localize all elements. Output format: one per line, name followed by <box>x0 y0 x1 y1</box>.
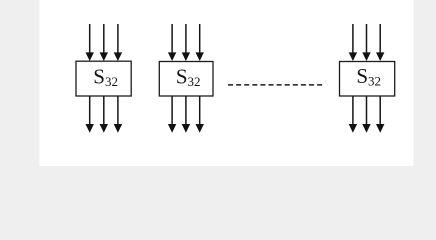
input arrow 1 of stage 2 <box>168 24 176 61</box>
input arrow 2 of stage 2 <box>182 24 190 61</box>
output arrow 1 of stage 1 <box>86 96 94 133</box>
output arrow 1 of stage 2 <box>168 96 176 133</box>
output arrow 2 of stage 2 <box>182 96 190 133</box>
output arrow 3 of stage 2 <box>196 96 204 133</box>
input arrow 1 of stage 1 <box>86 24 94 61</box>
input arrow 2 of last stage <box>362 24 370 61</box>
input arrow 1 of last stage <box>349 24 357 61</box>
white page panel <box>40 0 414 166</box>
input arrow 3 of last stage <box>376 24 384 61</box>
input arrow 3 of stage 1 <box>114 24 122 61</box>
output arrow 3 of last stage <box>376 96 384 133</box>
switch box S32 (stage 2) <box>159 62 213 97</box>
output arrow 2 of last stage <box>362 96 370 133</box>
output arrow 2 of stage 1 <box>100 96 108 133</box>
output arrow 3 of stage 1 <box>114 96 122 133</box>
input arrow 2 of stage 1 <box>100 24 108 61</box>
switch box S32 (stage 1) <box>76 61 131 96</box>
output arrow 1 of last stage <box>349 96 357 133</box>
ellipsis dashed line between stage 2 and last stage <box>228 84 322 86</box>
input arrow 3 of stage 2 <box>196 24 204 61</box>
switch box S32 (last stage) <box>340 62 395 97</box>
